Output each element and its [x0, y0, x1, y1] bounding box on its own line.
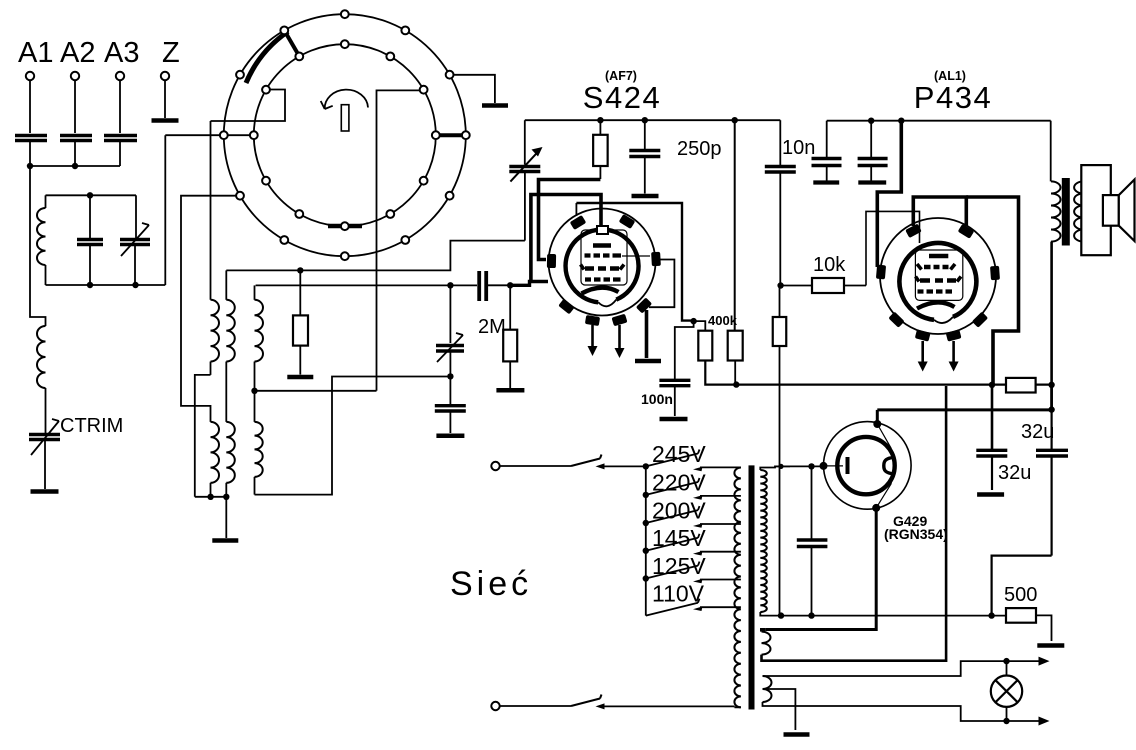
tube S424 anode pin — [619, 214, 636, 229]
trimmer capacitor AVC — [436, 346, 464, 352]
wire padder bottom — [524, 172, 526, 241]
capacitor 10n coupling — [779, 120, 781, 166]
wire Z-line to drum 180deg contacts — [165, 134, 250, 136]
switch blade 245V — [646, 450, 700, 467]
wire outer 30deg contact to ground — [454, 75, 495, 103]
junction bias bus left — [989, 382, 995, 388]
svg-text:500: 500 — [1004, 584, 1037, 606]
inductor antenna input coil — [37, 326, 46, 388]
drum outer contact 60deg — [401, 27, 409, 35]
resistor AVC — [293, 315, 308, 345]
wire resistor stem — [299, 270, 301, 315]
drum bridge at 120deg — [284, 30, 299, 56]
tube P434 heater pin2 — [946, 329, 962, 341]
wire tuned-circuit bottom — [46, 284, 166, 286]
transformer core — [749, 465, 755, 709]
tube S424 heater pin2 — [611, 314, 627, 327]
tube S424 heater arrow1 — [591, 325, 594, 348]
tube S424 osc-grid pin — [547, 254, 556, 268]
tube S424 anode row — [585, 266, 619, 271]
drum inner contact 60deg — [386, 53, 394, 61]
ground 2M — [496, 388, 524, 393]
wire tuned-circuit top — [46, 194, 137, 196]
rotary drum switch outer ring — [224, 14, 466, 256]
drum outer contact 0deg — [462, 131, 470, 139]
junction tap bus 220V — [643, 492, 649, 498]
tube P434 heater pin1 — [915, 329, 931, 341]
junction bias bus right — [1048, 382, 1054, 388]
tube S424 internal shield box — [581, 230, 627, 285]
ground S424 cathode — [635, 359, 661, 364]
trimmer capacitor CTRIM — [29, 435, 60, 440]
terminal A3 — [116, 72, 124, 80]
capacitor 32u first — [991, 385, 994, 451]
junction tap bus 245V — [643, 463, 649, 469]
wire osc bus 270 — [226, 241, 525, 271]
drum outer contact 210deg — [236, 192, 244, 200]
tube S424 inner electrode ring — [566, 230, 639, 303]
switch blade 125V — [646, 562, 700, 579]
junction tap bus 145V — [643, 548, 649, 554]
junction on HV line — [778, 464, 783, 469]
wire to AVC cap — [449, 351, 451, 376]
tube P434 pin nc — [888, 312, 904, 328]
switch blade 145V — [646, 534, 700, 551]
junction screen feed — [732, 117, 738, 123]
wire OT primary down — [1050, 242, 1053, 410]
junction plate resistor — [597, 117, 603, 123]
wire anode out (thick) — [966, 197, 1018, 385]
wire resistor to ground — [299, 346, 301, 375]
resistor grid leak P434 — [779, 286, 781, 318]
capacitor series grid — [477, 271, 481, 301]
junction 250p — [642, 117, 648, 123]
svg-text:Sieć: Sieć — [450, 565, 532, 603]
junction anode load — [690, 318, 696, 324]
tube S424 grid row1 — [585, 253, 622, 257]
transformer primary winding — [734, 468, 741, 708]
svg-text:32u: 32u — [998, 462, 1031, 484]
junction grid leak bottom — [778, 612, 784, 618]
resistor 10k — [781, 285, 812, 287]
tube S424 cathode dome — [598, 300, 616, 307]
tube S424 cathode pin — [636, 297, 652, 313]
ground IF coils — [212, 538, 238, 543]
resistor plate load — [599, 120, 601, 135]
wire A3 cap to bus — [119, 142, 121, 166]
wire heater winding center tap — [763, 689, 796, 730]
svg-text:S424: S424 — [583, 80, 661, 115]
dial lamp — [1006, 661, 1008, 675]
wire blade to tap bus — [599, 465, 646, 467]
capacitor A1 — [15, 136, 47, 141]
tube P434 cathode arc — [917, 302, 955, 308]
svg-text:10k: 10k — [813, 254, 846, 276]
G429 anode C — [884, 458, 893, 474]
wire 32u2 to HV bus — [992, 556, 1052, 616]
svg-text:32u: 32u — [1021, 421, 1054, 443]
junction L5 bottom — [207, 494, 213, 500]
tube S424 pin nc — [558, 299, 575, 315]
capacitor bypass2 — [870, 121, 872, 159]
junction lamp top — [1003, 658, 1009, 664]
wire anode bracket — [649, 260, 674, 308]
wire primary bottom — [735, 705, 741, 708]
tube S424 anode bar — [593, 243, 611, 248]
rotary drum switch inner ring — [254, 44, 436, 226]
junction 400k2 bottom — [733, 381, 739, 387]
svg-text:A2: A2 — [60, 37, 95, 69]
capacitor bypass1 — [826, 121, 828, 159]
transformer tap 200V — [700, 523, 741, 525]
svg-text:100n: 100n — [641, 391, 673, 407]
terminal A1 — [26, 72, 34, 80]
wire grid bus — [256, 284, 477, 286]
switch bottom blade — [571, 695, 602, 707]
tube S424 grid cap — [597, 226, 608, 234]
svg-text:A3: A3 — [104, 37, 139, 69]
tube S424 heater pin1 — [585, 315, 600, 326]
drum inner contact 90deg — [341, 40, 349, 48]
drum inner contact 30deg — [420, 86, 428, 94]
vacuum tube S424 envelope — [549, 209, 656, 316]
tube P434 internal shield box — [915, 250, 962, 300]
junction grid leak — [507, 282, 513, 288]
transformer HV secondary — [760, 470, 767, 612]
transformer tap 220V — [700, 495, 741, 497]
wire screen to anode-load net — [576, 203, 693, 321]
wire junction to 400k1 — [694, 321, 706, 331]
G429 left pin — [820, 462, 828, 470]
inductor L5 row2 from drum — [211, 422, 220, 483]
wire inner 30deg contact down — [377, 90, 420, 390]
wire 100n to ground — [674, 386, 676, 416]
wire top bus to output transformer — [1050, 121, 1052, 182]
wire screen feed down — [734, 120, 736, 331]
transformer tap 145V — [700, 551, 741, 553]
wire antenna bus — [30, 165, 120, 167]
wire grid-cap lead (thick) — [531, 195, 601, 284]
svg-text:CTRIM: CTRIM — [60, 415, 123, 437]
inductor L3 primary top — [210, 121, 212, 300]
terminal A2 — [71, 72, 79, 80]
drum outer contact 240deg — [280, 236, 288, 244]
resistor 400k second — [728, 331, 743, 361]
tube P434 anode row — [920, 278, 956, 283]
drum inner contact 270deg — [341, 222, 349, 230]
drum rotation arrow — [325, 90, 368, 109]
wire secondary to speaker — [1083, 166, 1085, 255]
wire L3 bottom to bus — [195, 375, 211, 497]
drum inner contact 150deg — [262, 86, 270, 94]
speaker horn — [1119, 180, 1135, 242]
wire down to bypass cap — [449, 376, 451, 405]
wire bypass to ground — [449, 411, 451, 433]
capacitor A3 — [104, 136, 137, 141]
wire heater bottom to lamp — [763, 702, 1045, 721]
ground AVC resistor — [287, 375, 313, 380]
wire Z down — [164, 80, 166, 118]
svg-text:400k: 400k — [708, 313, 738, 328]
tube P434 cathode pin — [972, 312, 988, 328]
transformer tap 245V — [700, 466, 741, 468]
wire G429 cathode down (thick) — [765, 508, 876, 630]
svg-text:Z: Z — [162, 37, 180, 69]
wire Z-line down to tuned circuit — [164, 135, 166, 285]
drum shaft — [341, 105, 349, 131]
junction lamp bottom — [1003, 718, 1009, 724]
ground heater center tap — [784, 732, 810, 737]
junction tap bus 200V — [643, 520, 649, 526]
resistor field — [1006, 378, 1036, 393]
junction L6 tap — [251, 388, 257, 394]
capacitor 32u second — [1050, 410, 1052, 451]
wire A1 down — [29, 80, 31, 133]
drum inner contact 240deg — [295, 210, 303, 218]
tube S424 screen-grid pin — [570, 215, 587, 230]
wire B+ bus 410 — [877, 408, 1051, 411]
junction cap top — [87, 192, 93, 198]
wire anode feed staircase (thick) — [877, 121, 901, 267]
ground 500 — [1037, 643, 1064, 648]
rectifier G429 inner ring — [837, 437, 894, 494]
wire padder top — [524, 120, 526, 164]
wire to IF ground — [225, 497, 227, 538]
drum outer contact 120deg — [280, 27, 288, 35]
transformer heater winding — [763, 676, 772, 702]
drum bridge at 0deg — [436, 133, 466, 137]
drum wiper arc — [246, 32, 288, 84]
wire switch top — [500, 465, 571, 467]
junction AVC line — [447, 282, 453, 288]
tube S424 grid row2 — [585, 277, 621, 281]
junction 32u2 return — [988, 612, 994, 618]
wire HV top — [760, 466, 790, 470]
wire tap selector bus — [645, 466, 647, 615]
ground 250p — [632, 194, 659, 199]
tube P434 anode bar — [929, 254, 948, 259]
junction anode feed — [898, 118, 904, 124]
wire heater top to lamp — [763, 661, 1045, 676]
drum inner contact 330deg — [420, 177, 428, 185]
switch blade 110V — [646, 599, 700, 616]
drum bar at inner bottom — [328, 224, 362, 229]
ground at drum — [482, 103, 508, 108]
wire grid route — [866, 211, 920, 285]
wire osc grid lead (thick) — [539, 180, 601, 260]
wire blade to primary — [599, 705, 735, 707]
G429 internal lead bottom — [876, 475, 893, 508]
tube P434 cathode dome — [0, 0, 1, 1]
G429 filament bar — [846, 457, 850, 474]
wire A2 cap to bus — [74, 142, 76, 166]
terminal Z — [161, 72, 169, 80]
wire G429 anode up to B+ — [876, 410, 879, 424]
svg-text:P434: P434 — [914, 80, 992, 115]
tube P434 screen pin — [876, 265, 886, 280]
ground bypass — [436, 433, 464, 438]
G429 bottom pin — [872, 504, 880, 512]
svg-text:250p: 250p — [677, 138, 722, 160]
resistor 400k first — [698, 331, 712, 361]
wire HV bottom / HV bus — [760, 612, 1006, 616]
G429 internal lead top — [877, 424, 893, 456]
ground Z — [152, 118, 179, 123]
wire drum to L6 tap — [255, 390, 377, 392]
tube P434 inner electrode ring — [899, 243, 976, 320]
svg-text:2M: 2M — [478, 316, 506, 338]
switch blade 220V — [646, 478, 700, 495]
drum outer contact 30deg — [446, 71, 454, 79]
drum outer contact 150deg — [236, 71, 244, 79]
wire A3 down — [119, 80, 121, 133]
tube P434 grid pin — [905, 224, 922, 239]
svg-text:A1: A1 — [18, 37, 53, 69]
wire junction to 100n — [675, 321, 694, 379]
wire A1 cap to bus — [29, 142, 31, 166]
ground CTRIM — [31, 489, 59, 494]
wire coil bottom bus — [195, 496, 227, 498]
mains switch bottom terminal — [491, 702, 499, 710]
output transformer primary — [1051, 181, 1061, 241]
drum outer contact 270deg — [341, 252, 349, 260]
wire shield to anode pin — [622, 255, 650, 257]
G429 top pin — [873, 420, 881, 428]
transformer rectifier filament winding — [762, 632, 771, 655]
tube P434 heater arrow2 — [952, 341, 955, 363]
wire grid pin bracket (thick) — [913, 197, 966, 226]
wire P434 top bus — [827, 120, 1051, 122]
junction A2 bus — [72, 163, 78, 169]
mains switch top terminal — [491, 462, 499, 470]
rectifier G429 envelope — [824, 422, 912, 510]
junction bypass1 — [868, 118, 874, 124]
switch top blade — [571, 455, 602, 467]
resistor 500 — [1006, 608, 1036, 623]
capacitor bypass — [435, 406, 466, 411]
wire switch bottom — [500, 705, 571, 707]
ground 100n — [660, 417, 688, 422]
tube S424 anode2 pin — [651, 252, 661, 266]
output transformer core — [1062, 178, 1070, 246]
tube P434 heater arrow1 — [921, 341, 924, 363]
junction trimmer bottom — [132, 282, 138, 288]
junction filter cap bottom — [808, 612, 814, 618]
wire HV to G429 — [775, 465, 824, 467]
inductor L6 grid coil — [254, 285, 256, 299]
tube P434 anode pin — [958, 224, 975, 239]
trimmer capacitor padder — [509, 167, 540, 172]
wire coil to CTRIM — [45, 388, 47, 433]
vacuum tube P434 envelope — [880, 218, 996, 334]
drum inner contact 180deg — [250, 131, 258, 139]
wire grid bus to tube (thick) — [486, 284, 510, 286]
tube P434 grid row2 — [918, 289, 953, 293]
wire OT to B+ — [1050, 385, 1053, 410]
tube P434 pin right — [990, 266, 1000, 281]
wire A1 to coil — [30, 166, 46, 326]
junction tap bus 125V — [643, 575, 649, 581]
resistor 2M — [509, 285, 511, 329]
wire CTRIM to ground — [44, 441, 46, 489]
speaker frame — [1081, 165, 1111, 255]
junction B+ right — [1048, 406, 1054, 412]
capacitor 250p — [644, 120, 646, 150]
inductor antenna coil L2 — [45, 195, 47, 208]
tube S424 cathode arc — [582, 288, 619, 294]
wire filament winding top — [762, 630, 766, 632]
wire screen pin up — [575, 203, 577, 216]
output transformer secondary — [1074, 181, 1084, 241]
tube P434 grid row1 — [924, 265, 949, 269]
speaker driver — [1103, 195, 1119, 226]
tube S424 heater arrow2 — [618, 325, 621, 350]
drum inner contact 0deg — [432, 131, 440, 139]
transformer tap 125V — [700, 579, 741, 581]
drum outer contact 300deg — [401, 236, 409, 244]
drum outer contact 180deg — [220, 131, 228, 139]
wire outer 210deg contact to coil row2 — [181, 196, 240, 422]
ground 32u first — [977, 492, 1004, 497]
wire S424 top bus — [525, 119, 781, 121]
wire 400k bottoms to bias bus — [705, 361, 1051, 385]
wire 500 to ground — [1036, 615, 1052, 641]
svg-text:(RGN354): (RGN354) — [884, 526, 948, 542]
drum outer contact 90deg — [341, 10, 349, 18]
wire cathode to ground (thick) — [645, 310, 649, 358]
junction AVC cap — [447, 373, 453, 379]
wire AVC divider — [449, 285, 451, 343]
switch blade 200V — [646, 506, 700, 523]
junction cap bottom — [87, 282, 93, 288]
drum inner contact 210deg — [262, 177, 270, 185]
junction AVC resistor top — [297, 267, 303, 273]
wire L6 bottom to grid cap net — [255, 377, 452, 495]
wire A2 down — [74, 80, 76, 133]
wire filament winding bottom / heater line — [762, 386, 947, 661]
G429 internal lead left — [824, 465, 844, 467]
drum inner contact 300deg — [386, 210, 394, 218]
capacitor fixed in tuned circuit — [89, 195, 91, 239]
svg-text:10n: 10n — [782, 137, 815, 159]
junction A1 bus — [27, 163, 33, 169]
trimmer capacitor in tuned circuit — [135, 195, 137, 239]
capacitor filter — [811, 466, 813, 540]
drum inner contact 120deg — [295, 53, 303, 61]
junction L4 bottom — [223, 494, 229, 500]
junction filter cap — [808, 463, 814, 469]
wire inner 150deg contact to coil L3 — [211, 90, 286, 122]
inductor L4 secondary (osc) — [225, 270, 227, 299]
capacitor A2 — [60, 136, 92, 141]
drum outer contact 330deg — [446, 192, 454, 200]
transformer tap 110V — [700, 606, 741, 608]
capacitor 100n — [659, 380, 690, 385]
junction P434 grid-leak — [777, 282, 783, 288]
